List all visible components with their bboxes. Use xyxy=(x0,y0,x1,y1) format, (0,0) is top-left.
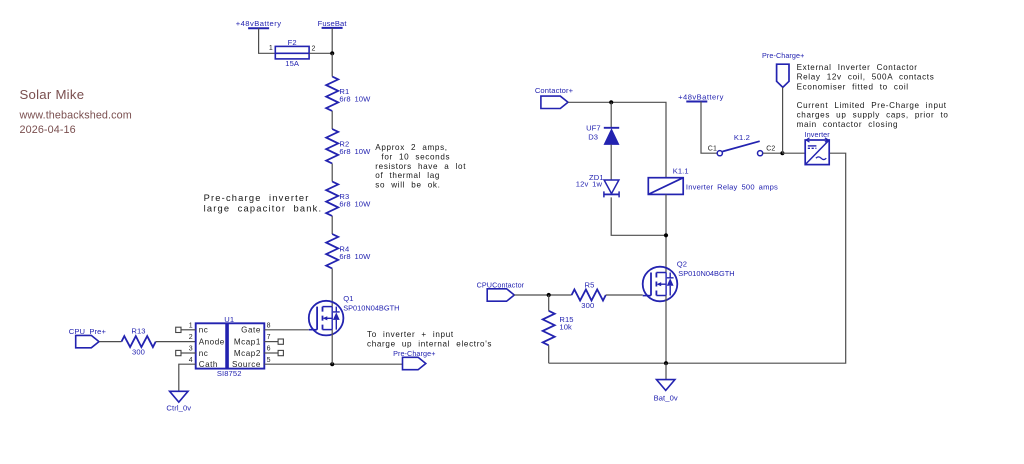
relay coil K1.1 body xyxy=(648,178,683,195)
svg-text:U1: U1 xyxy=(224,315,234,324)
port CPUContactor symbol xyxy=(487,289,514,301)
junction node B diode branch xyxy=(609,100,613,104)
wire R13 to U1 pin 2 xyxy=(156,341,196,343)
svg-text:1: 1 xyxy=(189,322,193,329)
wire ground rail bottom xyxy=(549,153,846,363)
svg-text:6r8 10W: 6r8 10W xyxy=(339,199,371,208)
wire node C to inverter xyxy=(782,152,805,154)
svg-text:F2: F2 xyxy=(288,38,297,47)
wire relay K1.1 bottom to Q2 drain xyxy=(665,194,667,272)
wire Q1 source down xyxy=(331,330,333,365)
junction node C pre-charge tap xyxy=(780,151,784,155)
power symbol +48vBattery bar xyxy=(248,27,269,29)
svg-text:12v 1w: 12v 1w xyxy=(576,179,603,188)
svg-text:8: 8 xyxy=(267,322,271,329)
svg-text:6r8 10W: 6r8 10W xyxy=(339,147,371,156)
svg-text:Inverter: Inverter xyxy=(805,130,831,139)
svg-text:1: 1 xyxy=(269,45,273,52)
inverter box symbol xyxy=(805,138,829,165)
svg-text:Solar Mike: Solar Mike xyxy=(20,87,85,102)
svg-text:SP010N04BGTH: SP010N04BGTH xyxy=(678,269,734,278)
svg-text:CPUContactor: CPUContactor xyxy=(477,280,525,289)
fuse F2 body xyxy=(275,46,309,59)
wire node B to D3 cathode xyxy=(610,102,612,128)
svg-text:Pre-Charge+: Pre-Charge+ xyxy=(762,51,804,60)
wire CPUContactor to R5 xyxy=(514,294,571,296)
svg-text:+48vBattery: +48vBattery xyxy=(236,19,282,28)
svg-text:R5: R5 xyxy=(585,280,595,289)
wire R1 top from node A xyxy=(331,53,333,76)
contact K1.2 C2 circle xyxy=(758,151,763,156)
wire +48vBattery right to contact C1 xyxy=(701,102,717,154)
junction Q1 source / pin5 wire xyxy=(330,362,334,366)
wire ZD1 to relay bottom node xyxy=(611,197,666,235)
ic U1 pin 1 nc square xyxy=(176,327,181,332)
svg-text:FuseBat: FuseBat xyxy=(318,19,348,28)
svg-text:300: 300 xyxy=(581,301,594,310)
svg-text:+48vBattery: +48vBattery xyxy=(678,93,724,102)
svg-text:Inverter Relay 500 amps: Inverter Relay 500 amps xyxy=(686,182,778,191)
svg-text:Ctrl_0v: Ctrl_0v xyxy=(166,404,191,413)
svg-text:2: 2 xyxy=(312,46,316,53)
diode D3 symbol xyxy=(604,128,619,145)
wire R5 to Q2 gate xyxy=(606,294,643,296)
svg-text:Bat_0v: Bat_0v xyxy=(654,394,678,403)
resistor R2 xyxy=(326,129,338,164)
port Pre-Charge+ bottom symbol xyxy=(403,357,426,369)
power symbol +48vBattery right bar xyxy=(686,101,707,103)
junction R15 tap xyxy=(547,293,551,297)
wire FuseBat down to node A xyxy=(331,28,333,53)
ground symbol Bat_0v xyxy=(657,380,675,391)
svg-text:Gate: Gate xyxy=(241,326,261,335)
wire U1 pin 4 to Ctrl_0v xyxy=(179,364,196,391)
wire R3 chain segment above R4 xyxy=(331,216,333,234)
ic U1 SI8752 body xyxy=(196,323,265,368)
wire R2 chain segment above R3 xyxy=(331,164,333,182)
ic U1 pin 3 line xyxy=(181,352,196,354)
wire R1 chain segment above R2 xyxy=(331,111,333,129)
svg-text:nc: nc xyxy=(199,349,209,358)
wire CPU_Pre+ to R13 xyxy=(99,341,122,343)
junction Q2 source / ground rail xyxy=(664,361,668,365)
contact K1.2 lever xyxy=(723,141,760,151)
svg-text:Q1: Q1 xyxy=(343,294,353,303)
ic U1 pin 6 nc square xyxy=(278,350,283,355)
svg-text:Anode: Anode xyxy=(199,337,225,346)
port Contactor+ symbol xyxy=(541,96,568,108)
svg-text:10k: 10k xyxy=(559,323,572,332)
svg-text:15A: 15A xyxy=(285,59,300,68)
svg-text:K1.2: K1.2 xyxy=(734,133,750,142)
resistor R3 xyxy=(326,182,338,217)
wire U1 pin 5 source to Pre-Charge+ port xyxy=(264,363,402,365)
svg-text:D3: D3 xyxy=(588,132,598,141)
svg-text:2026-04-16: 2026-04-16 xyxy=(20,124,76,136)
svg-text:C2: C2 xyxy=(766,146,775,153)
wire R4 to Q1 drain xyxy=(331,269,333,307)
wire Q2 source down to ground rail xyxy=(665,296,667,364)
svg-text:6r8 10W: 6r8 10W xyxy=(339,252,371,261)
svg-text:5: 5 xyxy=(267,357,271,364)
svg-text:R13: R13 xyxy=(131,326,145,335)
wire fuse F2 pin 2 to node A xyxy=(309,52,332,54)
svg-text:SI8752: SI8752 xyxy=(217,369,242,378)
wire R15 bottom to ground rail xyxy=(548,345,550,363)
port CPU_Pre+ symbol xyxy=(76,335,99,347)
svg-text:3: 3 xyxy=(189,346,193,353)
svg-text:6: 6 xyxy=(267,346,271,353)
svg-text:Cath: Cath xyxy=(199,360,218,369)
transistor Q2 SP010N04BGTH xyxy=(643,267,678,302)
resistor R13 xyxy=(122,336,156,347)
wire U1 pin 8 gate to Q1 xyxy=(264,329,309,331)
resistor R4 xyxy=(326,234,338,269)
svg-text:Pre-charge inverterlarge capac: Pre-charge inverterlarge capacitor bank. xyxy=(204,193,323,213)
svg-text:SP010N04BGTH: SP010N04BGTH xyxy=(343,304,399,313)
svg-text:300: 300 xyxy=(132,348,145,357)
port Pre-Charge+ top symbol xyxy=(777,64,789,87)
junction node A at fuse output xyxy=(330,51,334,55)
svg-text:7: 7 xyxy=(267,334,271,341)
net label FuseBat bar xyxy=(322,27,343,29)
ic U1 pin 7 nc square xyxy=(278,339,283,344)
svg-text:C1: C1 xyxy=(708,145,717,152)
resistor R15 xyxy=(543,311,555,346)
svg-text:Source: Source xyxy=(232,360,261,369)
junction relay bottom / zener branch xyxy=(664,233,668,237)
wire to Bat_0v xyxy=(665,363,667,379)
transistor Q1 SP010N04BGTH xyxy=(309,301,344,336)
svg-text:K1.1: K1.1 xyxy=(673,166,689,175)
wire +48vBattery to fuse F2 pin 1 xyxy=(259,28,276,53)
svg-text:Mcap2: Mcap2 xyxy=(234,349,261,358)
ic U1 pin 6 line xyxy=(264,352,278,354)
wire Pre-Charge+ top down to node C xyxy=(782,87,784,153)
contact K1.2 C1 circle xyxy=(717,151,722,156)
svg-text:www.thebackshed.com: www.thebackshed.com xyxy=(19,110,132,122)
svg-text:nc: nc xyxy=(199,326,209,335)
ground symbol Ctrl_0v xyxy=(170,391,188,402)
svg-text:6r8 10W: 6r8 10W xyxy=(339,94,371,103)
wire R15 top xyxy=(548,295,550,311)
resistor R5 xyxy=(572,290,606,301)
svg-text:4: 4 xyxy=(189,357,193,364)
ic U1 pin 7 line xyxy=(264,341,278,343)
zener ZD1 symbol xyxy=(604,180,619,197)
svg-text:Contactor+: Contactor+ xyxy=(535,86,574,95)
svg-text:UF7: UF7 xyxy=(586,124,601,133)
wire C2 to node C xyxy=(763,152,783,154)
svg-text:2: 2 xyxy=(189,334,193,341)
svg-text:Mcap1: Mcap1 xyxy=(234,337,261,346)
ic U1 pin 1 line xyxy=(181,329,196,331)
wire D3 anode to ZD1 xyxy=(610,144,612,180)
ic U1 pin 3 nc square xyxy=(176,350,181,355)
svg-text:Q2: Q2 xyxy=(677,259,687,268)
wire Contactor+ to relay top corner xyxy=(568,102,666,177)
resistor R1 xyxy=(326,77,338,112)
